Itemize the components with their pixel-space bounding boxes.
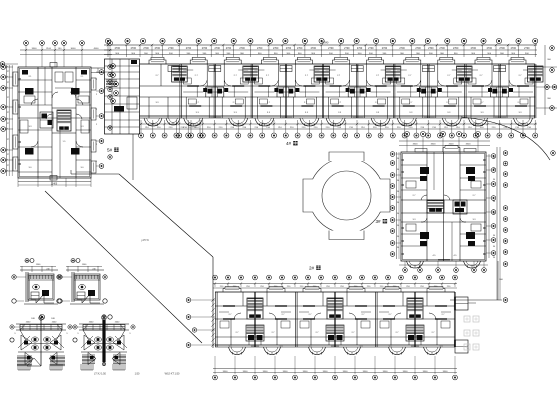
svg-text:3300: 3300: [243, 371, 249, 373]
svg-text:y-PY-6: y-PY-6: [141, 239, 149, 242]
svg-text:2700: 2700: [382, 47, 388, 50]
svg-text:2700: 2700: [357, 47, 363, 50]
svg-text:3300: 3300: [423, 371, 429, 373]
svg-text:2700: 2700: [453, 47, 459, 50]
svg-text:2600: 2600: [449, 144, 455, 146]
svg-text:2700: 2700: [415, 47, 421, 50]
svg-text:9: 9: [14, 333, 15, 335]
svg-text:3300: 3300: [431, 144, 437, 146]
svg-text:2700: 2700: [524, 47, 530, 50]
svg-text:4#: 4#: [286, 141, 292, 146]
svg-text:3300: 3300: [413, 144, 419, 146]
svg-text:240: 240: [92, 269, 95, 271]
svg-text:11400: 11400: [51, 183, 58, 185]
svg-text:1:50: 1:50: [135, 373, 140, 376]
svg-text:WSJ-XT 1:50: WSJ-XT 1:50: [165, 373, 180, 376]
svg-text:3300: 3300: [343, 371, 349, 373]
svg-text:2700: 2700: [328, 47, 334, 50]
svg-text:3000: 3000: [71, 48, 77, 50]
svg-text:2700: 2700: [202, 47, 208, 50]
svg-text:2700: 2700: [286, 47, 292, 50]
svg-text:47040: 47040: [322, 42, 329, 45]
svg-text:3300: 3300: [466, 144, 472, 146]
svg-text:2700: 2700: [297, 47, 303, 50]
svg-text:5#: 5#: [107, 148, 113, 153]
svg-text:9: 9: [129, 333, 130, 335]
svg-text:LT-XJ 1:50: LT-XJ 1:50: [94, 373, 107, 376]
svg-text:2700: 2700: [131, 47, 137, 50]
svg-text:2#: 2#: [309, 266, 315, 271]
svg-text:9: 9: [66, 333, 67, 335]
svg-text:2700: 2700: [428, 47, 434, 50]
svg-text:2700: 2700: [368, 47, 374, 50]
svg-text:2700: 2700: [344, 47, 350, 50]
svg-text:2700: 2700: [487, 47, 493, 50]
svg-text:2700: 2700: [143, 47, 149, 50]
svg-text:4500: 4500: [94, 48, 100, 50]
svg-text:2700: 2700: [226, 47, 232, 50]
svg-text:2100: 2100: [46, 48, 52, 50]
svg-text:3#: 3#: [375, 219, 381, 224]
svg-text:2700: 2700: [439, 47, 445, 50]
svg-text:3300: 3300: [363, 371, 369, 373]
svg-text:9: 9: [77, 333, 78, 335]
svg-text:3300: 3300: [403, 371, 409, 373]
svg-text:3300: 3300: [32, 48, 38, 50]
svg-text:3300: 3300: [303, 371, 309, 373]
svg-text:2700: 2700: [471, 47, 477, 50]
svg-text:3300: 3300: [263, 371, 269, 373]
svg-text:2700: 2700: [499, 47, 505, 50]
svg-text:2700: 2700: [168, 47, 174, 50]
svg-text:2700: 2700: [115, 47, 121, 50]
svg-text:2700: 2700: [311, 47, 317, 50]
svg-text:2700: 2700: [155, 47, 161, 50]
svg-text:3300: 3300: [283, 371, 289, 373]
svg-text:2700: 2700: [273, 47, 279, 50]
svg-text:2700: 2700: [399, 47, 405, 50]
svg-text:2700: 2700: [215, 47, 221, 50]
svg-text:2700: 2700: [186, 47, 192, 50]
svg-text:2700: 2700: [511, 47, 517, 50]
svg-text:2700: 2700: [239, 47, 245, 50]
svg-text:3300: 3300: [443, 371, 449, 373]
svg-text:3300: 3300: [223, 371, 229, 373]
svg-text:3300: 3300: [323, 371, 329, 373]
svg-text:240: 240: [46, 269, 49, 271]
svg-text:3300: 3300: [383, 371, 389, 373]
svg-text:2700: 2700: [257, 47, 263, 50]
